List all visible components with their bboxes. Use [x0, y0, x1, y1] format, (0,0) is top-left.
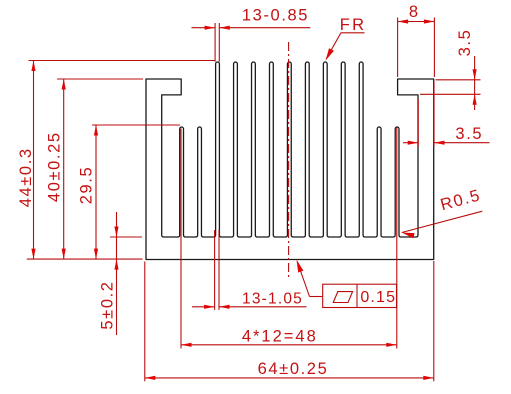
- flatness tolerance frame 0.15 with leader to bottom face: [310, 296, 323, 298]
- svg-text:13-0.85: 13-0.85: [242, 7, 309, 25]
- extension line from tall fin tips (44 dim): [29, 60, 216, 62]
- dimension 3.5 right (wall thickness): [417, 99, 419, 147]
- svg-text:3.5: 3.5: [456, 29, 474, 57]
- svg-text:4*12=48: 4*12=48: [242, 328, 318, 346]
- svg-text:0.15: 0.15: [360, 289, 396, 306]
- svg-text:8: 8: [409, 3, 420, 21]
- heatsink extrusion profile outline: [146, 62, 434, 260]
- svg-text:29.5: 29.5: [78, 166, 96, 205]
- extension line from hook top (40 dim): [57, 78, 143, 80]
- dimension 5±0.2 line: [116, 212, 118, 335]
- R0.5 radius callout with leader: [402, 211, 483, 232]
- svg-text:13-1.05: 13-1.05: [242, 290, 303, 307]
- dimension 29.5 line: [95, 125, 97, 259]
- dimension 64±0.25 (overall width): [144, 262, 146, 382]
- dimension 3.5 top right (hook lip height): [436, 79, 481, 81]
- vertical centerline through middle fin: [288, 42, 290, 278]
- dimension 13-1.05 (fin root thickness): [214, 230, 216, 310]
- extension line from short fin top (29.5 dim): [92, 124, 180, 126]
- dimension 13-0.85 (fin tip thickness): [192, 27, 216, 29]
- dimension 44±0.3 line: [33, 61, 35, 260]
- extension line from base top (5 dim): [110, 236, 142, 238]
- svg-text:5±0.2: 5±0.2: [98, 280, 116, 329]
- svg-text:64±0.25: 64±0.25: [258, 360, 329, 378]
- svg-text:3.5: 3.5: [455, 125, 483, 143]
- svg-text:44±0.3: 44±0.3: [17, 147, 35, 207]
- svg-text:40±0.25: 40±0.25: [46, 131, 64, 202]
- dimension 8 (hook width): [398, 21, 435, 23]
- dimension 40±0.25 line: [63, 79, 65, 259]
- extension line from part bottom (left dims): [27, 258, 143, 260]
- dimension 4*12=48 (fin pitch): [180, 129, 182, 349]
- svg-text:FR: FR: [340, 16, 366, 34]
